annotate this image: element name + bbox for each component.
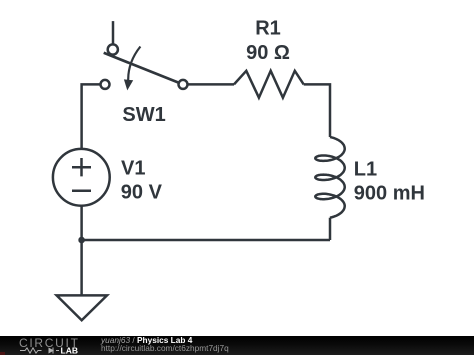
wire top-left corner [82, 84, 100, 149]
svg-text:LAB: LAB [61, 345, 78, 355]
resistor R1 [234, 71, 304, 98]
junction node [78, 237, 85, 244]
value 90 V [121, 181, 163, 203]
label SW1 [122, 104, 165, 126]
svg-text:SW1: SW1 [122, 104, 165, 126]
value 900 mH [354, 183, 425, 205]
CircuitLab logo [0, 336, 95, 355]
label L1 [354, 158, 377, 180]
svg-text:V1: V1 [121, 158, 145, 180]
voltage source V1 [53, 149, 110, 206]
switch SW1 [101, 21, 188, 90]
wire ground stub [80, 240, 83, 295]
credits [101, 336, 192, 344]
ground [57, 295, 107, 320]
svg-text:90 Ω: 90 Ω [246, 42, 290, 64]
svg-text:R1: R1 [255, 18, 281, 40]
svg-text:900 mH: 900 mH [354, 183, 425, 205]
svg-text:L1: L1 [354, 158, 377, 180]
label R1 [255, 18, 281, 40]
inductor L1 [315, 137, 344, 218]
wire resistor to corner [304, 84, 330, 137]
wire inductor to bottom corner [329, 218, 332, 240]
label V1 [121, 158, 145, 180]
svg-text:90 V: 90 V [121, 181, 163, 203]
value 90 ohm [246, 42, 290, 64]
wire V1 to junction [80, 206, 83, 240]
wire bottom rail [82, 239, 330, 242]
wire switch to resistor [188, 83, 234, 86]
